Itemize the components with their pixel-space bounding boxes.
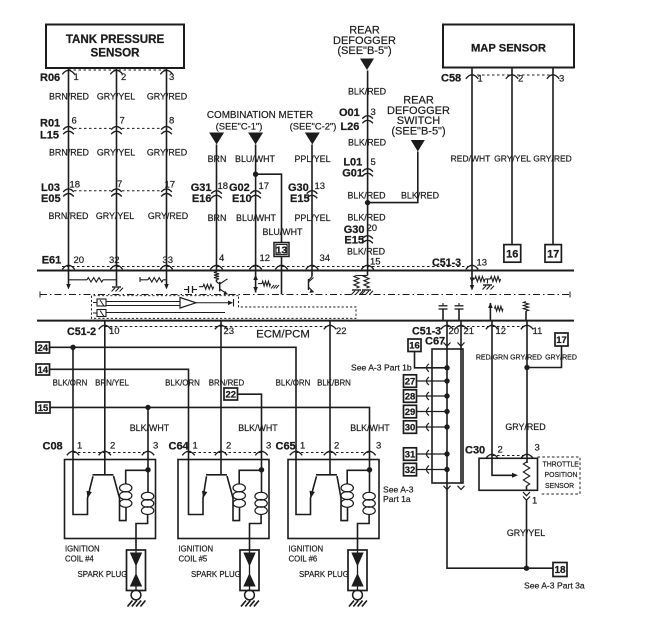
connector G31/E16	[191, 181, 228, 205]
svg-text:2: 2	[518, 74, 523, 85]
driver opamp	[180, 298, 196, 309]
ecm internal transistor a	[199, 271, 228, 295]
tank pressure sensor box	[46, 25, 184, 69]
connector G30/E15 defogger	[344, 223, 377, 247]
ecm driver dashed box	[92, 296, 357, 319]
wire GRY/RED map	[552, 68, 554, 245]
svg-text:C08: C08	[43, 441, 63, 453]
wire 15 to coil4 pin3	[147, 407, 149, 459]
terminal box 17	[545, 245, 561, 263]
svg-text:30: 30	[405, 422, 416, 433]
wire 29 to bus	[417, 408, 448, 416]
svg-text:E10: E10	[232, 193, 252, 205]
svg-text:BRN/RED: BRN/RED	[49, 92, 89, 102]
svg-text:THROTTLE: THROTTLE	[543, 462, 580, 469]
svg-text:7: 7	[117, 179, 122, 190]
svg-text:13: 13	[315, 181, 326, 192]
wire pin3 GRY/RED	[166, 68, 168, 271]
wire BRN	[216, 145, 218, 271]
connector C51-3 pin 13	[432, 257, 487, 269]
connector C64 row	[169, 441, 272, 456]
svg-text:BLK/RED: BLK/RED	[348, 213, 386, 223]
svg-text:COIL #5: COIL #5	[179, 555, 208, 564]
ignition coil #5 label	[179, 545, 214, 564]
wire BLU/WHT	[255, 145, 257, 271]
connector G30/E15	[288, 181, 325, 205]
svg-text:32: 32	[109, 255, 120, 266]
ecm internal transistor b	[309, 271, 314, 293]
terminal box 29	[404, 405, 417, 418]
wire 30 to bus	[417, 423, 448, 431]
svg-text:GRY/RED: GRY/RED	[147, 92, 187, 102]
svg-text:2: 2	[498, 445, 503, 456]
svg-text:SPARK PLUG: SPARK PLUG	[299, 570, 349, 579]
rear defogger arrow	[360, 59, 374, 71]
svg-text:BRN/RED: BRN/RED	[49, 211, 89, 221]
C67 bus wire	[447, 321, 553, 569]
svg-text:R06: R06	[40, 72, 60, 84]
wire from 24	[50, 345, 297, 460]
wire from 22	[238, 394, 262, 459]
svg-text:33: 33	[163, 255, 174, 266]
terminal box 16	[504, 245, 521, 263]
svg-text:17: 17	[259, 181, 270, 192]
svg-text:2: 2	[110, 441, 115, 452]
wire 32 to bus	[417, 466, 448, 474]
svg-text:GRY/YEL: GRY/YEL	[507, 528, 545, 538]
map wire labels	[451, 154, 572, 164]
svg-text:IGNITION: IGNITION	[289, 545, 324, 554]
connector C30 row	[465, 443, 540, 459]
svg-text:SPARK PLUG: SPARK PLUG	[191, 570, 241, 579]
map sensor box	[443, 25, 574, 68]
svg-text:34: 34	[320, 253, 331, 264]
terminal box 16 c67	[408, 339, 421, 352]
terminal box 24	[36, 342, 50, 353]
svg-text:C58: C58	[441, 73, 461, 85]
ignition coil #6	[288, 460, 379, 551]
svg-text:SPARK PLUG: SPARK PLUG	[78, 570, 128, 579]
svg-text:1: 1	[478, 74, 483, 85]
svg-text:(SEE"B-5"): (SEE"B-5")	[391, 125, 445, 137]
wire pin10 to coil4	[104, 321, 106, 475]
tps pin1	[523, 486, 537, 507]
ecm internal pin20	[66, 271, 87, 290]
wire 16 to bus	[415, 352, 448, 372]
labels red/grn gry/red gry/red	[476, 355, 577, 362]
throttle position sensor box	[479, 458, 538, 490]
svg-text:3: 3	[535, 443, 540, 454]
svg-text:PPL/YEL: PPL/YEL	[294, 154, 330, 164]
svg-text:18: 18	[554, 565, 566, 576]
svg-text:GRY/RED: GRY/RED	[505, 422, 545, 432]
connector C51-2 row	[67, 325, 347, 338]
combination meter arrow 2	[248, 133, 263, 145]
connector C51-3 row bottom	[412, 325, 542, 337]
svg-text:14: 14	[37, 365, 48, 376]
wire pin1 BRN/RED	[68, 68, 70, 271]
svg-text:1: 1	[74, 72, 79, 83]
svg-text:BLK/RED: BLK/RED	[348, 138, 386, 148]
ecm internal resistors pin15	[352, 271, 374, 295]
ecm internal capacitor b	[439, 303, 448, 321]
svg-text:MAP SENSOR: MAP SENSOR	[471, 43, 546, 55]
tps label	[543, 462, 580, 491]
svg-text:E61: E61	[42, 255, 62, 267]
svg-text:20: 20	[449, 326, 460, 337]
svg-text:See A-3 Part 1b: See A-3 Part 1b	[351, 363, 412, 373]
svg-text:C51-3: C51-3	[432, 257, 461, 269]
spark plug #6	[348, 550, 367, 607]
terminal box 17 top	[555, 333, 568, 346]
connector L03/E05 row	[41, 179, 175, 205]
svg-text:BLU/WHT: BLU/WHT	[263, 227, 304, 237]
terminal box 28	[404, 390, 417, 403]
svg-text:BLK/RED: BLK/RED	[347, 247, 385, 257]
svg-text:17: 17	[547, 248, 559, 260]
svg-text:L26: L26	[340, 121, 359, 133]
svg-text:28: 28	[405, 391, 416, 402]
terminal box 14	[36, 364, 50, 375]
BLK/WHT labels	[130, 423, 391, 433]
svg-text:22: 22	[225, 389, 236, 400]
wire pin11 to tps	[526, 321, 528, 463]
combination meter label	[207, 110, 337, 132]
svg-text:GRY/RED: GRY/RED	[533, 154, 572, 164]
svg-text:BLK/WHT: BLK/WHT	[238, 423, 278, 433]
terminal box 15	[36, 402, 50, 413]
driver mosfet 2	[93, 310, 106, 317]
wire from switch	[368, 152, 418, 203]
svg-text:32: 32	[405, 465, 416, 476]
C67 pin21 wire	[460, 321, 462, 483]
svg-text:12: 12	[260, 253, 271, 264]
svg-text:COMBINATION METER: COMBINATION METER	[207, 110, 313, 121]
svg-text:1: 1	[300, 441, 305, 452]
svg-text:2: 2	[226, 441, 231, 452]
ecm internal resistor 1	[87, 278, 103, 282]
C67 bus junction dots	[444, 365, 449, 472]
svg-text:20: 20	[367, 223, 378, 234]
rail top	[37, 270, 574, 272]
wire labels row 1	[49, 92, 187, 102]
svg-text:GRY/RED: GRY/RED	[148, 211, 188, 221]
combination meter arrow 1	[209, 133, 224, 145]
ignition coil #6 label	[289, 545, 324, 564]
svg-text:BRN/RED: BRN/RED	[209, 379, 245, 388]
terminal box 27	[404, 375, 417, 388]
svg-text:BRN: BRN	[208, 213, 227, 223]
ecm internal resistor 2	[140, 271, 169, 290]
svg-text:C64: C64	[169, 441, 190, 453]
wire pin22 to coil6	[329, 321, 331, 475]
svg-text:E05: E05	[41, 193, 61, 205]
wire from 14	[50, 369, 189, 459]
svg-text:7: 7	[120, 116, 125, 127]
terminal box 22	[224, 388, 238, 400]
rear defogger switch arrow	[411, 140, 425, 152]
svg-text:6: 6	[72, 116, 77, 127]
svg-text:GRY/YEL: GRY/YEL	[97, 92, 135, 102]
driver output	[196, 299, 234, 307]
svg-text:TANK PRESSURE: TANK PRESSURE	[66, 33, 165, 46]
see a-3 part 1a	[383, 485, 414, 505]
terminal box 18	[553, 563, 567, 577]
svg-text:C51-2: C51-2	[67, 326, 96, 338]
svg-text:BLK/RED: BLK/RED	[348, 87, 386, 97]
spark plug #4 ground	[0, 0, 1, 1]
wire RED/WHT	[471, 68, 473, 271]
svg-text:1: 1	[532, 496, 537, 507]
ecm internal resistor e	[523, 302, 528, 321]
svg-text:G01: G01	[342, 168, 363, 180]
svg-text:BLK/ORN: BLK/ORN	[53, 379, 88, 388]
connector box 13	[274, 243, 289, 257]
svg-text:BLU/WHT: BLU/WHT	[235, 154, 276, 164]
svg-text:SENSOR: SENSOR	[91, 47, 141, 60]
svg-text:4: 4	[219, 253, 224, 264]
wire labels row 3	[49, 211, 189, 221]
svg-text:20: 20	[74, 255, 85, 266]
svg-text:L15: L15	[40, 130, 59, 142]
svg-text:2: 2	[334, 441, 339, 452]
tps wiper	[492, 458, 518, 478]
svg-text:R01: R01	[40, 118, 60, 130]
svg-text:BLK/WHT: BLK/WHT	[130, 423, 170, 433]
svg-text:POSITION: POSITION	[545, 472, 578, 479]
ecm internal pin13 map	[470, 271, 501, 291]
svg-text:23: 23	[224, 326, 235, 337]
wire 28 to bus	[417, 392, 448, 400]
svg-text:E15: E15	[290, 193, 310, 205]
svg-text:PPL/YEL: PPL/YEL	[294, 213, 330, 223]
ignition coil #4 label	[65, 545, 100, 564]
svg-text:See A-3: See A-3	[383, 485, 414, 495]
wire 24 to coil4 pin1	[72, 347, 74, 459]
connector L01/G01	[342, 157, 376, 180]
wire 27 to bus	[417, 377, 448, 385]
tps dashed outline	[538, 457, 581, 494]
svg-text:BLK/ORN: BLK/ORN	[165, 379, 200, 388]
svg-text:(SEE"B-5"): (SEE"B-5")	[337, 45, 391, 57]
wire tps pin1 down	[524, 500, 529, 571]
wire BLK/RED defogger	[367, 71, 369, 271]
svg-text:11: 11	[533, 326, 543, 337]
E61 pins 4 12 34	[210, 253, 330, 269]
svg-text:(SEE"C-2"): (SEE"C-2")	[290, 121, 337, 132]
ignition coil #4	[65, 460, 156, 551]
svg-text:15: 15	[370, 257, 381, 268]
ecm internal capacitor a	[184, 286, 197, 293]
wire labels BRN BLU/WHT PPL/YEL row2	[208, 213, 331, 223]
C67 connector box	[432, 349, 463, 483]
connector C65 row	[276, 441, 382, 456]
spark plug #4	[127, 550, 146, 607]
svg-text:BLK/RED: BLK/RED	[401, 191, 439, 201]
connector R06 row	[40, 70, 174, 84]
svg-text:16: 16	[409, 341, 420, 352]
svg-text:COIL #6: COIL #6	[289, 555, 318, 564]
svg-text:10: 10	[109, 326, 120, 337]
svg-text:BLU/WHT: BLU/WHT	[236, 213, 277, 223]
C67 chevrons	[444, 343, 465, 490]
svg-text:(SEE"C-1"): (SEE"C-1")	[216, 121, 263, 132]
svg-text:1: 1	[77, 441, 82, 452]
svg-text:13: 13	[276, 245, 288, 257]
svg-text:3: 3	[153, 441, 158, 452]
ecm internal wire to gnd	[103, 271, 123, 292]
svg-text:BLK/ORN: BLK/ORN	[276, 379, 311, 388]
svg-text:C67: C67	[425, 336, 445, 348]
svg-text:SENSOR: SENSOR	[545, 483, 574, 490]
terminal box 30	[404, 421, 417, 434]
connector O01/L26	[339, 107, 376, 133]
rail bottom	[37, 320, 574, 322]
E61 pin 15	[361, 257, 380, 270]
wire pin23 to coil5	[220, 321, 222, 475]
svg-text:E16: E16	[192, 193, 212, 205]
svg-text:2: 2	[121, 72, 126, 83]
svg-text:BLK/BRN: BLK/BRN	[317, 379, 351, 388]
svg-text:RED/WHT: RED/WHT	[451, 154, 491, 164]
svg-text:GRY/RED: GRY/RED	[147, 148, 187, 158]
svg-text:17: 17	[556, 335, 567, 346]
svg-text:12: 12	[496, 326, 507, 337]
connector R01/L15 row	[40, 116, 174, 142]
svg-text:1: 1	[193, 441, 198, 452]
svg-text:BRN: BRN	[208, 154, 227, 164]
svg-text:BRN/YEL: BRN/YEL	[95, 379, 129, 388]
svg-text:Part 1a: Part 1a	[383, 494, 411, 504]
driver wires	[106, 302, 225, 313]
svg-text:IGNITION: IGNITION	[179, 545, 214, 554]
spark plug #5	[240, 550, 259, 607]
connector C08 row	[43, 441, 159, 456]
connector G02/E10	[229, 181, 269, 205]
wire labels row 2	[49, 148, 187, 158]
driver mosfet 1	[93, 299, 106, 306]
wire below box 13	[281, 257, 283, 271]
svg-text:24: 24	[37, 343, 48, 354]
wire from 15	[50, 405, 370, 460]
svg-text:See A-3 Part 3a: See A-3 Part 3a	[524, 581, 585, 591]
ecm internal pullup d	[488, 303, 503, 321]
terminal box 32	[404, 463, 417, 476]
svg-text:21: 21	[464, 326, 475, 337]
svg-text:C65: C65	[276, 441, 296, 453]
svg-text:15: 15	[38, 403, 49, 414]
svg-text:COIL #4: COIL #4	[65, 555, 94, 564]
svg-text:3: 3	[266, 441, 271, 452]
junction defogger	[365, 200, 370, 205]
coil wire labels	[53, 379, 352, 388]
ecm internal capacitor c	[455, 303, 464, 321]
svg-text:8: 8	[169, 116, 174, 127]
svg-text:GRY/RED: GRY/RED	[510, 355, 542, 362]
wire PPL/YEL	[311, 145, 313, 271]
svg-text:BLK/RED: BLK/RED	[348, 191, 386, 201]
ignition coil #5	[178, 460, 269, 551]
svg-text:5: 5	[371, 157, 376, 168]
svg-text:GRY/YEL: GRY/YEL	[96, 211, 134, 221]
rear defogger label	[333, 25, 396, 58]
combination meter arrow 3	[305, 133, 320, 145]
svg-text:BRN/RED: BRN/RED	[49, 148, 89, 158]
svg-text:O01: O01	[339, 107, 360, 119]
svg-text:3: 3	[376, 441, 381, 452]
wire pin2 GRY/YEL	[116, 68, 118, 271]
junction blu/wht branch	[253, 172, 258, 177]
svg-text:3: 3	[559, 74, 564, 85]
rear defogger switch label	[387, 95, 450, 138]
tps resistor	[523, 462, 529, 486]
connector E61 row	[42, 255, 472, 270]
ecm dash-dot boundary	[40, 292, 570, 298]
terminal box 31	[404, 448, 417, 461]
svg-text:E15: E15	[344, 235, 364, 247]
ecm internal stub pin13meter	[281, 271, 283, 295]
svg-text:IGNITION: IGNITION	[65, 545, 100, 554]
svg-text:13: 13	[477, 258, 488, 269]
svg-text:GRY/YEL: GRY/YEL	[494, 154, 531, 164]
svg-text:3: 3	[169, 72, 174, 83]
wire labels BRN BLU/WHT PPL/YEL	[208, 154, 331, 164]
svg-text:16: 16	[506, 248, 518, 260]
connector C58 row	[441, 73, 564, 85]
svg-text:18: 18	[218, 181, 229, 192]
svg-text:C30: C30	[465, 445, 485, 457]
wire GRY/YEL map	[511, 68, 513, 245]
svg-text:22: 22	[336, 326, 347, 337]
wire 17 to node	[524, 346, 561, 370]
svg-text:GRY/YEL: GRY/YEL	[97, 148, 135, 158]
svg-text:31: 31	[405, 449, 416, 460]
wire 31 to bus	[417, 450, 448, 458]
svg-text:ECM/PCM: ECM/PCM	[256, 329, 310, 341]
ecm internal pin12 sensing	[253, 271, 279, 293]
svg-text:BLK/WHT: BLK/WHT	[350, 423, 390, 433]
wire pin12 to tps	[491, 321, 493, 459]
svg-text:27: 27	[405, 376, 416, 387]
svg-text:29: 29	[405, 407, 416, 418]
